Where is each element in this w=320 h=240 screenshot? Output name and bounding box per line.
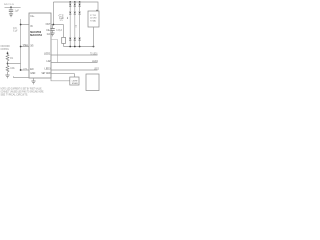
ground output cap — [50, 33, 54, 36]
svg-text:NOTE: LED CURRENT IS SET BY RS: NOTE: LED CURRENT IS SET BY RSET VALUE. — [1, 88, 43, 91]
net label LED3 — [94, 68, 100, 70]
node control junction — [7, 52, 9, 54]
pin stub note box top — [96, 10, 98, 11]
svg-text:SET GND: SET GND — [42, 73, 51, 75]
LED string D3 — [79, 1, 81, 47]
wire LED anode rail — [53, 2, 98, 11]
wire OUT riser — [52, 2, 54, 25]
svg-text:ON/OFF: ON/OFF — [1, 46, 11, 48]
wire LED1 out — [51, 54, 98, 56]
svg-text:CONNECT UNUSED LED PINS TO GRO: CONNECT UNUSED LED PINS TO GROUND HERE. — [1, 92, 45, 94]
pin label C1- right — [46, 30, 51, 32]
pin label LED2 — [47, 61, 52, 63]
svg-text:LD2: LD2 — [47, 61, 52, 63]
wire OUT pin — [51, 24, 64, 26]
svg-text:0.1µF: 0.1µF — [13, 31, 18, 33]
wire LED2 out — [51, 62, 98, 64]
pin label EN — [30, 69, 34, 71]
wire LED3 out — [51, 69, 98, 71]
value label output cap — [56, 30, 62, 32]
svg-text:MAX1554: MAX1554 — [30, 33, 42, 37]
svg-text:R1: R1 — [10, 58, 14, 60]
pin label C1+ top left — [30, 16, 35, 18]
svg-text:0.47µF: 0.47µF — [56, 30, 62, 32]
wire EN pin corner — [21, 69, 29, 71]
svg-text:OUT: OUT — [46, 24, 51, 26]
node EN junction — [20, 69, 22, 71]
wire IC corner to sensor — [51, 78, 70, 81]
resistor R1 — [6, 54, 9, 61]
wire ground return trace — [14, 76, 30, 77]
white LED note box — [88, 11, 99, 27]
wire VIN vertical bus — [20, 19, 22, 70]
svg-text:SEE TYPICAL CIRCUITS.: SEE TYPICAL CIRCUITS. — [1, 94, 29, 97]
svg-text:IN: IN — [30, 26, 33, 28]
svg-text:LED3: LED3 — [45, 69, 52, 71]
capacitor C4 output — [50, 25, 54, 33]
svg-text:EN: EN — [30, 69, 34, 71]
label EN wire — [23, 68, 28, 70]
wire FB drop — [63, 25, 65, 38]
value label 1uF — [15, 10, 20, 13]
pin label C2- right — [47, 34, 51, 36]
control label ON/OFF — [1, 46, 11, 51]
node IN junction — [20, 24, 22, 26]
input label VIN 2.7V TO 5.5V — [4, 4, 14, 6]
wire divider tap — [8, 63, 21, 65]
microprocessor box — [86, 74, 99, 91]
note line 1 — [1, 88, 43, 91]
svg-text:GND: GND — [30, 73, 35, 75]
resistor R3 sense — [62, 37, 66, 43]
light sensor box — [70, 77, 79, 85]
svg-text:LED1: LED1 — [44, 54, 51, 56]
LED string D2 — [74, 1, 76, 47]
value label R2 — [10, 58, 15, 70]
pin label GND — [30, 73, 35, 75]
note line 3 — [1, 94, 29, 97]
IC brand text — [30, 30, 42, 37]
svg-text:2 TO: 2 TO — [90, 15, 96, 17]
pin label SHDN — [30, 46, 34, 48]
wire divider bottom — [7, 72, 9, 75]
ground input cap — [9, 14, 13, 17]
svg-text:10 LED: 10 LED — [90, 18, 97, 20]
capacitor C1 input 1uF — [9, 7, 13, 13]
svg-text:VSEL: VSEL — [23, 45, 29, 47]
LED string D1 — [69, 1, 71, 47]
svg-text:3/5: 3/5 — [30, 46, 34, 48]
pin label SET — [42, 73, 51, 75]
wire SET to sensor — [51, 74, 75, 77]
ground divider — [5, 75, 9, 78]
pin label OUT right — [46, 24, 51, 26]
wire VIN rail — [5, 6, 21, 8]
wire pin SHDN — [21, 46, 29, 48]
ground IC bottom — [31, 78, 35, 84]
svg-text:C1+: C1+ — [30, 16, 35, 18]
svg-text:CTRL: CTRL — [23, 68, 28, 70]
node rail junction — [93, 46, 95, 48]
note line 2 — [1, 92, 45, 94]
svg-text:1µF: 1µF — [15, 10, 20, 13]
wire divider mid — [7, 61, 9, 66]
wire divider top — [7, 52, 9, 55]
wire IN pin — [21, 24, 29, 26]
label output node — [59, 15, 65, 22]
svg-text:INPUT 3.6V: INPUT 3.6V — [4, 4, 14, 6]
pin label LED3 — [45, 69, 52, 71]
svg-text:5V: 5V — [60, 20, 64, 22]
node divider junction — [7, 63, 9, 65]
ellipsis D2 string — [75, 25, 78, 27]
net label LED2 — [92, 61, 99, 63]
svg-text:LED3: LED3 — [94, 68, 100, 70]
svg-text:TO LED1: TO LED1 — [90, 53, 98, 55]
svg-text:100k: 100k — [10, 68, 15, 70]
wire sense to rail — [63, 43, 65, 46]
wire LED cathode rail — [64, 46, 94, 48]
svg-text:C2-: C2- — [47, 34, 51, 36]
op-amp U1 charge pump IC box — [29, 13, 51, 78]
label SHDN wire — [23, 45, 29, 47]
net label LED1 — [90, 53, 98, 55]
node OUT junction — [53, 24, 55, 26]
wire ref stub — [51, 40, 58, 63]
node SHDN junction — [20, 46, 22, 48]
resistor R2 — [6, 66, 9, 72]
pin label IN — [30, 26, 33, 28]
ellipsis D1 string — [66, 17, 69, 19]
node VIN junction — [10, 6, 12, 8]
svg-text:SNSR: SNSR — [72, 83, 78, 85]
label near bus — [13, 28, 18, 33]
svg-text:LED2: LED2 — [92, 61, 99, 63]
pin label LED1 — [44, 54, 51, 56]
wire note box to rail — [93, 27, 95, 47]
svg-text:CONTROL: CONTROL — [1, 49, 10, 51]
svg-text:TOTAL: TOTAL — [90, 19, 97, 22]
